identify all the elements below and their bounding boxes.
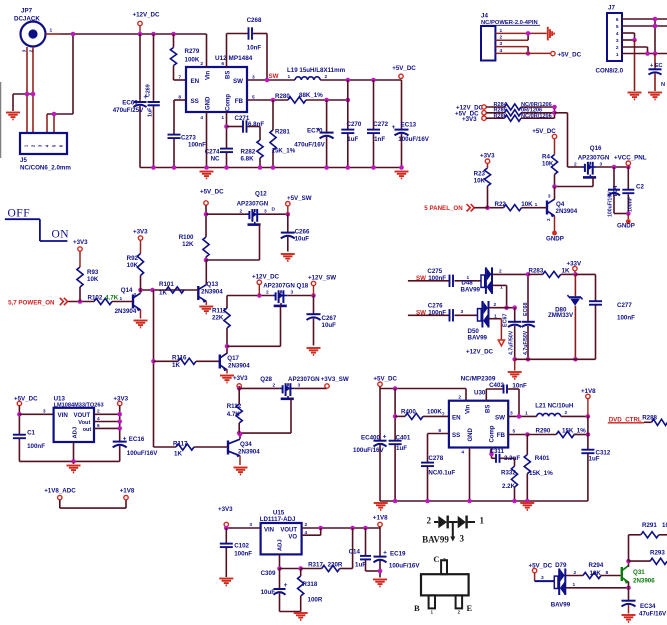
svg-text:3: 3 [616, 38, 619, 44]
svg-text:+ EC: + EC [650, 63, 663, 69]
svg-text:2: 2 [574, 162, 577, 168]
svg-text:6: 6 [221, 61, 224, 67]
svg-text:R92: R92 [127, 255, 139, 262]
svg-text:C268: C268 [247, 17, 262, 24]
svg-text:47uF/16V: 47uF/16V [639, 611, 667, 618]
svg-text:2: 2 [325, 74, 328, 80]
svg-text:SS: SS [452, 432, 460, 439]
svg-text:6: 6 [616, 17, 619, 23]
svg-text:4.7K: 4.7K [105, 295, 119, 302]
svg-text:+5V_DC: +5V_DC [532, 128, 556, 135]
svg-text:D48: D48 [461, 279, 473, 286]
svg-text:10nF: 10nF [247, 45, 262, 52]
svg-text:4: 4 [200, 115, 203, 121]
svg-text:+33V: +33V [567, 260, 582, 267]
svg-text:R332: R332 [501, 470, 516, 477]
svg-text:AP2307GN: AP2307GN [578, 154, 610, 161]
svg-text:ZMM33V: ZMM33V [548, 312, 574, 319]
svg-text:10K: 10K [87, 276, 99, 283]
svg-text:R116: R116 [172, 355, 187, 362]
svg-text:1: 1 [288, 74, 291, 80]
svg-text:1: 1 [120, 296, 123, 302]
svg-text:4.7uF/50V: 4.7uF/50V [509, 330, 515, 355]
svg-text:BS: BS [486, 405, 492, 413]
svg-text:R117: R117 [173, 440, 188, 447]
svg-text:EC68: EC68 [523, 303, 529, 317]
svg-text:100nF: 100nF [234, 551, 252, 558]
svg-text:10K: 10K [521, 201, 533, 208]
svg-text:4.7uF/50V: 4.7uF/50V [523, 330, 529, 355]
svg-text:L19 15uH/L8X11mm: L19 15uH/L8X11mm [287, 67, 346, 74]
svg-text:Q13: Q13 [207, 281, 219, 288]
svg-text:100K: 100K [185, 57, 200, 64]
svg-text:Q16: Q16 [590, 145, 602, 152]
svg-text:SW: SW [416, 309, 426, 316]
svg-text:+12V_SW: +12V_SW [308, 275, 336, 282]
svg-text:+: + [284, 582, 288, 589]
svg-text:GND: GND [468, 428, 474, 442]
svg-text:+: + [123, 436, 127, 443]
svg-text:C: C [433, 554, 439, 564]
svg-text:R93: R93 [87, 269, 99, 276]
svg-text:15K_1%: 15K_1% [529, 470, 553, 477]
svg-text:470uF/25V: 470uF/25V [113, 107, 144, 114]
svg-text:R102: R102 [88, 295, 103, 302]
svg-text:1uF: 1uF [347, 136, 358, 143]
svg-text:100uF/16V: 100uF/16V [608, 191, 614, 217]
svg-text:out: out [83, 427, 92, 433]
svg-text:+: + [383, 550, 387, 557]
svg-text:100nF: 100nF [188, 142, 206, 149]
svg-text:6.8K: 6.8K [241, 156, 255, 163]
svg-text:R318: R318 [303, 581, 318, 588]
svg-text:2N3904: 2N3904 [228, 363, 250, 370]
svg-text:Vin: Vin [206, 70, 212, 80]
svg-text:7: 7 [442, 411, 445, 417]
svg-text:3: 3 [541, 575, 544, 581]
svg-text:R290: R290 [536, 428, 551, 435]
svg-text:NC/CON6_2.0mm: NC/CON6_2.0mm [20, 165, 71, 172]
svg-text:12K: 12K [182, 241, 194, 248]
svg-text:3: 3 [460, 534, 465, 544]
svg-text:5: 5 [616, 24, 619, 30]
svg-text:Vout: Vout [78, 420, 90, 426]
svg-text:100uF/16V: 100uF/16V [127, 450, 158, 457]
svg-text:470uF/16V: 470uF/16V [294, 142, 325, 149]
svg-text:R111: R111 [212, 308, 227, 315]
svg-text:C309: C309 [261, 570, 276, 577]
svg-text:+1V8: +1V8 [581, 388, 596, 395]
svg-text:8: 8 [606, 570, 609, 576]
svg-text:SW: SW [495, 415, 505, 422]
svg-text:100K: 100K [427, 408, 442, 415]
svg-text:1: 1 [616, 52, 619, 58]
svg-text:100uF/16V: 100uF/16V [389, 562, 420, 569]
svg-text:EC13: EC13 [401, 122, 417, 129]
svg-text:AP2307GN: AP2307GN [288, 376, 320, 383]
svg-text:3: 3 [43, 409, 46, 415]
svg-text:EC400: EC400 [361, 435, 380, 442]
svg-text:C272: C272 [373, 121, 388, 128]
svg-text:BAV99: BAV99 [551, 602, 571, 609]
svg-text:EC67: EC67 [503, 314, 509, 328]
svg-text:EC69: EC69 [122, 100, 138, 107]
svg-text:1: 1 [573, 582, 576, 588]
svg-text:+5V_DC: +5V_DC [200, 189, 224, 196]
svg-text:10: 10 [662, 522, 667, 529]
svg-text:Q14: Q14 [121, 287, 133, 294]
svg-text:J5: J5 [20, 157, 27, 164]
svg-text:GNDP: GNDP [546, 236, 564, 243]
svg-text:2N3904: 2N3904 [238, 449, 260, 456]
svg-text:10nF: 10nF [512, 382, 527, 389]
svg-text:C278: C278 [428, 455, 443, 462]
svg-text:Q17: Q17 [227, 355, 239, 362]
svg-text:R288: R288 [642, 415, 657, 422]
svg-text:C401: C401 [396, 435, 411, 442]
svg-text:+5V_SW: +5V_SW [287, 195, 312, 202]
svg-text:1: 1 [535, 202, 538, 208]
svg-text:AP2307GN: AP2307GN [237, 201, 269, 208]
svg-text:5 PANEL_ON: 5 PANEL_ON [424, 205, 463, 212]
svg-text:3: 3 [298, 382, 301, 388]
svg-text:VOUT: VOUT [74, 413, 91, 419]
svg-text:3: 3 [443, 558, 446, 564]
svg-text:+3V3: +3V3 [233, 375, 248, 382]
svg-text:C402: C402 [489, 382, 504, 389]
svg-text:1: 1 [525, 411, 528, 417]
svg-text:220R: 220R [328, 562, 343, 569]
svg-text:7: 7 [178, 75, 181, 81]
svg-text:J7: J7 [608, 5, 615, 12]
svg-text:10K: 10K [542, 161, 554, 168]
svg-text:10uF: 10uF [322, 322, 337, 329]
svg-text:EC70: EC70 [307, 128, 323, 135]
svg-text:R23: R23 [474, 170, 486, 177]
svg-text:OFF: OFF [8, 208, 31, 220]
svg-text:5,7 POWER_ON: 5,7 POWER_ON [8, 300, 55, 307]
svg-text:CON8/2.0: CON8/2.0 [596, 68, 624, 75]
svg-text:U13: U13 [54, 395, 66, 402]
svg-text:2.2K: 2.2K [502, 483, 516, 490]
svg-text:2: 2 [97, 409, 100, 415]
svg-text:R400: R400 [401, 408, 416, 415]
svg-text:C269: C269 [146, 84, 152, 97]
svg-text:3: 3 [461, 309, 464, 315]
svg-text:BAV99: BAV99 [422, 535, 449, 545]
svg-text:R282: R282 [241, 149, 256, 156]
svg-text:+12V_DC: +12V_DC [132, 12, 160, 19]
svg-text:R22: R22 [495, 201, 507, 208]
svg-text:ADJ: ADJ [278, 539, 284, 551]
svg-text:C14: C14 [349, 549, 361, 556]
svg-text:+12V_DC: +12V_DC [252, 273, 280, 280]
svg-text:2N3904: 2N3904 [556, 208, 578, 215]
svg-text:6: 6 [97, 423, 100, 429]
svg-text:R291: R291 [642, 522, 657, 529]
svg-text:4: 4 [97, 416, 100, 422]
svg-text:88K_1%: 88K_1% [299, 92, 323, 99]
svg-text:BS: BS [226, 71, 232, 79]
svg-text:2N3906: 2N3906 [633, 578, 655, 585]
svg-text:15K_1%: 15K_1% [562, 428, 586, 435]
svg-text:D79: D79 [555, 562, 567, 569]
svg-text:2: 2 [240, 209, 243, 215]
svg-text:10uF: 10uF [261, 589, 276, 596]
svg-text:C270: C270 [347, 121, 362, 128]
svg-text:Q12: Q12 [255, 191, 267, 198]
svg-text:C275: C275 [427, 268, 442, 275]
svg-text:100uF/16V: 100uF/16V [353, 447, 384, 454]
svg-text:1uF: 1uF [355, 562, 366, 569]
svg-text:BAV99: BAV99 [468, 335, 488, 342]
svg-text:+VCC_PNL: +VCC_PNL [614, 154, 647, 161]
svg-text:R281: R281 [275, 129, 290, 136]
svg-text:B: B [414, 603, 420, 613]
svg-text:NC: NC [211, 156, 220, 163]
svg-text:R401: R401 [535, 455, 550, 462]
svg-text:Comp: Comp [226, 94, 232, 111]
svg-text:+5V_DC: +5V_DC [373, 375, 397, 382]
svg-text:R283: R283 [529, 267, 544, 274]
svg-text:10K: 10K [127, 262, 139, 269]
svg-text:R100: R100 [179, 234, 194, 241]
svg-text:R101: R101 [159, 281, 174, 288]
svg-text:AP2307GN Q18: AP2307GN Q18 [263, 282, 309, 289]
svg-text:+: + [383, 434, 387, 441]
svg-text:VIN: VIN [264, 528, 274, 534]
svg-text:1uF: 1uF [148, 107, 154, 117]
svg-text:GNDP: GNDP [617, 223, 635, 230]
svg-text:LM1084M33/TO263: LM1084M33/TO263 [54, 403, 104, 409]
svg-text:LD1117-ADJ: LD1117-ADJ [260, 516, 296, 523]
svg-text:SW: SW [233, 78, 243, 85]
svg-text:NC/0.1uF: NC/0.1uF [428, 469, 455, 476]
svg-text:C311: C311 [490, 448, 505, 455]
svg-text:ON: ON [52, 229, 70, 241]
svg-text:+12V_DC: +12V_DC [466, 349, 494, 356]
svg-text:1: 1 [480, 515, 485, 525]
svg-text:EC19: EC19 [390, 551, 406, 558]
svg-text:JP7: JP7 [21, 8, 33, 15]
svg-text:1K: 1K [174, 450, 182, 457]
svg-text:+: + [392, 124, 396, 131]
svg-text:+5V_DC: +5V_DC [392, 65, 416, 72]
svg-text:+3V3: +3V3 [133, 228, 148, 235]
svg-text:+3V3: +3V3 [73, 239, 88, 246]
svg-text:+1V8: +1V8 [120, 487, 135, 494]
svg-text:100nF: 100nF [628, 197, 634, 212]
svg-text:ADJ: ADJ [73, 427, 79, 439]
svg-text:EN: EN [452, 415, 461, 422]
svg-text:EC34: EC34 [640, 603, 656, 610]
svg-text:2: 2 [200, 61, 203, 67]
svg-text:Comp: Comp [490, 425, 496, 442]
svg-text:+3V3: +3V3 [462, 116, 477, 123]
svg-text:E: E [467, 603, 473, 613]
svg-text:N: N [661, 82, 665, 88]
svg-text:100nF: 100nF [617, 315, 635, 322]
svg-text:U30: U30 [474, 390, 486, 397]
svg-text:1uF: 1uF [396, 445, 407, 452]
svg-text:1nF: 1nF [374, 136, 385, 143]
svg-text:100uF/16V: 100uF/16V [398, 136, 429, 143]
svg-text:R280: R280 [275, 93, 290, 100]
svg-text:2: 2 [565, 410, 568, 416]
svg-text:C266: C266 [295, 229, 310, 236]
svg-text:4.7K: 4.7K [227, 411, 241, 418]
svg-text:+3V3_SW: +3V3_SW [321, 376, 349, 383]
svg-text:NC/0R/1206: NC/0R/1206 [521, 113, 552, 119]
svg-text:1K: 1K [562, 267, 570, 274]
svg-text:SS: SS [191, 98, 199, 105]
svg-text:+3V3: +3V3 [218, 506, 233, 513]
svg-text:Q28: Q28 [260, 376, 272, 383]
svg-text:3: 3 [291, 290, 294, 296]
svg-text:2: 2 [616, 45, 619, 51]
svg-text:2: 2 [305, 522, 308, 528]
svg-text:VO: VO [288, 535, 297, 541]
svg-text:L21 NC/10uH: L21 NC/10uH [535, 402, 574, 409]
svg-text:10K: 10K [474, 177, 486, 184]
svg-text:100nF: 100nF [428, 309, 446, 316]
svg-text:Q34: Q34 [240, 441, 252, 448]
svg-text:Q31: Q31 [633, 569, 645, 576]
svg-text:2: 2 [266, 290, 269, 296]
svg-text:R317: R317 [308, 562, 323, 569]
svg-text:+5V_DC: +5V_DC [529, 563, 553, 570]
svg-text:EC4: EC4 [613, 186, 619, 197]
svg-text:1: 1 [50, 28, 53, 34]
svg-text:C102: C102 [234, 542, 249, 549]
svg-text:R112: R112 [227, 403, 242, 410]
svg-text:C273: C273 [181, 135, 196, 142]
svg-text:4: 4 [461, 450, 464, 456]
svg-text:+5V_DC: +5V_DC [558, 52, 582, 59]
svg-text:FB: FB [235, 98, 244, 105]
svg-text:2: 2 [427, 515, 432, 525]
svg-text:R4: R4 [542, 154, 550, 161]
svg-text:R279: R279 [185, 48, 200, 55]
svg-text:EC16: EC16 [129, 436, 145, 443]
svg-text:100R: 100R [308, 597, 323, 604]
svg-text:3: 3 [548, 194, 551, 200]
svg-text:R294: R294 [589, 562, 604, 569]
svg-text:1uF: 1uF [589, 456, 600, 463]
svg-text:2: 2 [273, 382, 276, 388]
svg-text:3: 3 [133, 292, 136, 298]
svg-text:GND: GND [206, 96, 212, 110]
svg-text:R286: R286 [494, 113, 507, 119]
svg-text:2N3904: 2N3904 [115, 308, 137, 315]
svg-text:BAV99: BAV99 [461, 287, 481, 294]
svg-text:D: D [272, 207, 276, 213]
svg-text:SW: SW [269, 73, 279, 80]
svg-text:VOUT: VOUT [280, 528, 297, 534]
svg-text:100nF: 100nF [27, 443, 45, 450]
svg-text:EN: EN [191, 78, 200, 85]
svg-text:10uF: 10uF [295, 236, 310, 243]
svg-text:5: 5 [513, 428, 516, 434]
svg-text:10K: 10K [590, 570, 602, 577]
svg-text:C1: C1 [27, 429, 35, 436]
svg-text:22K: 22K [212, 315, 224, 322]
svg-text:FB: FB [497, 432, 506, 439]
svg-text:2N3904: 2N3904 [201, 288, 223, 295]
svg-text:15K_1%: 15K_1% [272, 148, 296, 155]
svg-text:2: 2 [458, 395, 461, 401]
svg-text:3: 3 [510, 410, 513, 416]
svg-text:VIN: VIN [58, 412, 69, 419]
svg-text:C277: C277 [617, 302, 632, 309]
svg-text:R293: R293 [650, 550, 665, 557]
svg-text:C267: C267 [322, 315, 337, 322]
svg-text:2: 2 [574, 570, 577, 576]
svg-text:4: 4 [616, 31, 619, 37]
svg-text:C274: C274 [205, 149, 220, 156]
svg-text:+1V8_ADC: +1V8_ADC [44, 487, 76, 494]
svg-text:6.8nF: 6.8nF [248, 121, 264, 128]
svg-text:1: 1 [221, 115, 224, 121]
svg-text:3.3nF: 3.3nF [504, 455, 520, 462]
svg-text:3: 3 [249, 522, 252, 528]
svg-text:+3V3: +3V3 [480, 152, 495, 159]
svg-text:+1V8: +1V8 [373, 514, 388, 521]
svg-text:1K: 1K [172, 362, 180, 369]
svg-text:Vin: Vin [466, 404, 472, 414]
svg-text:SW: SW [416, 275, 426, 282]
svg-text:U12 MP1484: U12 MP1484 [215, 55, 253, 62]
svg-text:100nF: 100nF [428, 275, 446, 282]
svg-text:J4: J4 [481, 13, 488, 20]
svg-text:C2: C2 [636, 184, 644, 191]
svg-text:1K: 1K [159, 290, 167, 297]
